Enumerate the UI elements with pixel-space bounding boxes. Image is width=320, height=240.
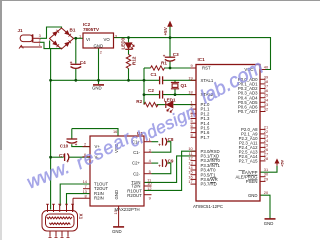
svg-text:8: 8 (191, 132, 193, 137)
svg-text:28: 28 (264, 156, 268, 161)
svg-text:32: 32 (264, 107, 268, 112)
svg-text:+: + (158, 164, 161, 169)
svg-text:IC1: IC1 (198, 57, 206, 62)
svg-text:MAX232PTH: MAX232PTH (115, 207, 140, 212)
svg-text:5: 5 (149, 169, 151, 174)
svg-text:17: 17 (188, 179, 192, 184)
svg-text:9: 9 (191, 63, 193, 68)
svg-text:18: 18 (188, 90, 192, 95)
svg-text:RST: RST (202, 66, 211, 71)
svg-text:+: + (70, 60, 73, 65)
svg-text:GND: GND (112, 229, 122, 234)
svg-text:R12: R12 (131, 56, 136, 65)
svg-text:40: 40 (264, 65, 269, 70)
svg-text:GND: GND (264, 221, 274, 226)
svg-text:LED1: LED1 (164, 98, 176, 103)
svg-text:www.: www. (23, 156, 72, 192)
svg-text:8: 8 (85, 193, 87, 198)
svg-text:19: 19 (188, 75, 192, 80)
svg-text:P0.7_AD7: P0.7_AD7 (238, 109, 258, 114)
svg-text:4: 4 (149, 158, 152, 163)
svg-text:C2-: C2- (133, 171, 140, 176)
svg-text:7805TV: 7805TV (83, 27, 100, 32)
svg-text:29: 29 (264, 176, 268, 181)
svg-text:2: 2 (100, 50, 102, 55)
svg-text:9: 9 (149, 195, 151, 200)
svg-text:C8: C8 (168, 137, 174, 142)
svg-text:12: 12 (147, 186, 151, 191)
svg-text:C2: C2 (148, 88, 154, 93)
svg-text:C4: C4 (80, 60, 86, 65)
svg-text:R2IN: R2IN (94, 196, 104, 201)
svg-text:R2OUT: R2OUT (127, 193, 142, 198)
svg-text:J1: J1 (18, 28, 24, 33)
svg-text:C3: C3 (173, 52, 179, 57)
svg-text:3: 3 (115, 34, 117, 39)
svg-text:+: + (163, 54, 166, 59)
svg-text:VI: VI (86, 37, 90, 42)
svg-text:LED3: LED3 (121, 37, 126, 49)
svg-text:C1: C1 (151, 72, 157, 77)
svg-text:C2+: C2+ (132, 161, 140, 166)
svg-text:2: 2 (84, 142, 86, 147)
svg-text:B1: B1 (70, 28, 76, 33)
svg-text:+5V: +5V (280, 159, 285, 167)
svg-text:C9: C9 (168, 159, 174, 164)
svg-text:1: 1 (79, 34, 81, 39)
svg-text:GND: GND (92, 86, 102, 91)
svg-text:GND: GND (248, 193, 258, 198)
svg-text:R2: R2 (136, 99, 142, 104)
svg-text:Q1: Q1 (181, 83, 188, 88)
svg-text:3: 3 (149, 147, 151, 152)
svg-text:VO: VO (104, 37, 111, 42)
svg-text:+: + (75, 142, 78, 147)
svg-text:P2.7_A15: P2.7_A15 (239, 159, 258, 164)
svg-text:GND: GND (114, 190, 119, 200)
svg-text:20: 20 (264, 190, 269, 195)
svg-text:C10: C10 (60, 144, 69, 149)
svg-text:GND: GND (94, 44, 104, 49)
svg-text:AT89C51-12PC: AT89C51-12PC (193, 204, 223, 209)
svg-text:R1: R1 (161, 61, 167, 66)
svg-text:X1: X1 (79, 214, 84, 220)
svg-text:+: + (158, 142, 161, 147)
svg-text:1: 1 (39, 42, 41, 47)
svg-text:+5V: +5V (163, 26, 168, 35)
svg-text:P1.7: P1.7 (201, 135, 210, 140)
